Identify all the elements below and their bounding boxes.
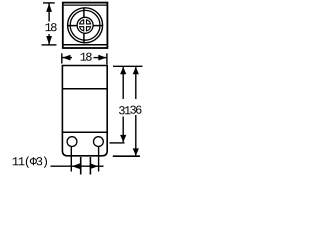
left pin — [80, 157, 82, 175]
left hole center extension line — [70, 147, 72, 172]
right hole center extension line — [98, 147, 100, 172]
31 dim bottom extension line — [110, 142, 125, 144]
31 dim vertical lower segment — [122, 117, 124, 143]
quadrant window bottom-left — [80, 27, 84, 31]
bottom 18 dim left arrow — [62, 55, 70, 61]
cross vertical bar lower segment — [83, 33, 85, 43]
top view square outline — [63, 3, 108, 48]
36 dim down arrow — [133, 148, 139, 155]
31 dim vertical upper segment — [122, 67, 124, 99]
left 18 dim line lower segment — [48, 34, 50, 45]
inner circle — [77, 17, 93, 33]
side view cap line — [62, 88, 107, 90]
bottom 11 dim left arrow — [72, 163, 80, 169]
top view inner top line — [64, 4, 107, 6]
left 18 dim up arrow — [46, 3, 52, 12]
36 dim text — [130, 106, 141, 114]
left 18 dim text — [45, 23, 56, 31]
31 dim down arrow — [120, 135, 126, 142]
quadrant window top-left — [80, 20, 84, 24]
bottom 18 dim line right segment — [94, 57, 107, 59]
36 dim up arrow — [133, 67, 139, 74]
right dims top extension line — [113, 65, 143, 67]
left mounting hole — [67, 137, 77, 147]
36 dim bottom extension line — [113, 155, 140, 157]
left 18 dim line upper segment — [48, 3, 50, 21]
quadrant window bottom-right — [87, 27, 91, 31]
bottom 18 dim left ext tick — [61, 53, 63, 63]
quadrant window top-right — [87, 20, 91, 24]
bottom 11 dim text — [13, 157, 47, 168]
outer ring outer circle — [68, 8, 103, 43]
36 dim vertical lower segment — [135, 115, 137, 156]
31 dim text — [119, 106, 130, 114]
bottom 18 dim right ext tick — [106, 53, 108, 64]
bottom 18 dim line left segment — [62, 57, 72, 59]
cross vertical bar upper segment — [83, 8, 85, 18]
31 dim up arrow — [120, 67, 126, 74]
cross horizontal bar right segment — [93, 25, 103, 27]
side view body outline — [62, 66, 107, 156]
outer ring inner circle — [70, 10, 100, 40]
side view divider line — [62, 131, 107, 133]
top view inner bottom line — [64, 44, 107, 46]
bottom 18 dim right arrow — [98, 55, 106, 61]
cross horizontal bar left segment — [68, 25, 78, 27]
bottom 11 dim right arrow — [90, 163, 98, 169]
36 dim vertical upper segment — [135, 67, 137, 99]
bottom 18 dim text — [81, 53, 92, 61]
left 18 dim bottom tick — [42, 44, 57, 46]
left 18 dim down arrow — [46, 36, 52, 45]
right pin — [89, 157, 91, 175]
right mounting hole — [94, 137, 104, 147]
bottom 11 dim line — [51, 165, 104, 167]
left 18 dim top tick — [43, 2, 55, 4]
